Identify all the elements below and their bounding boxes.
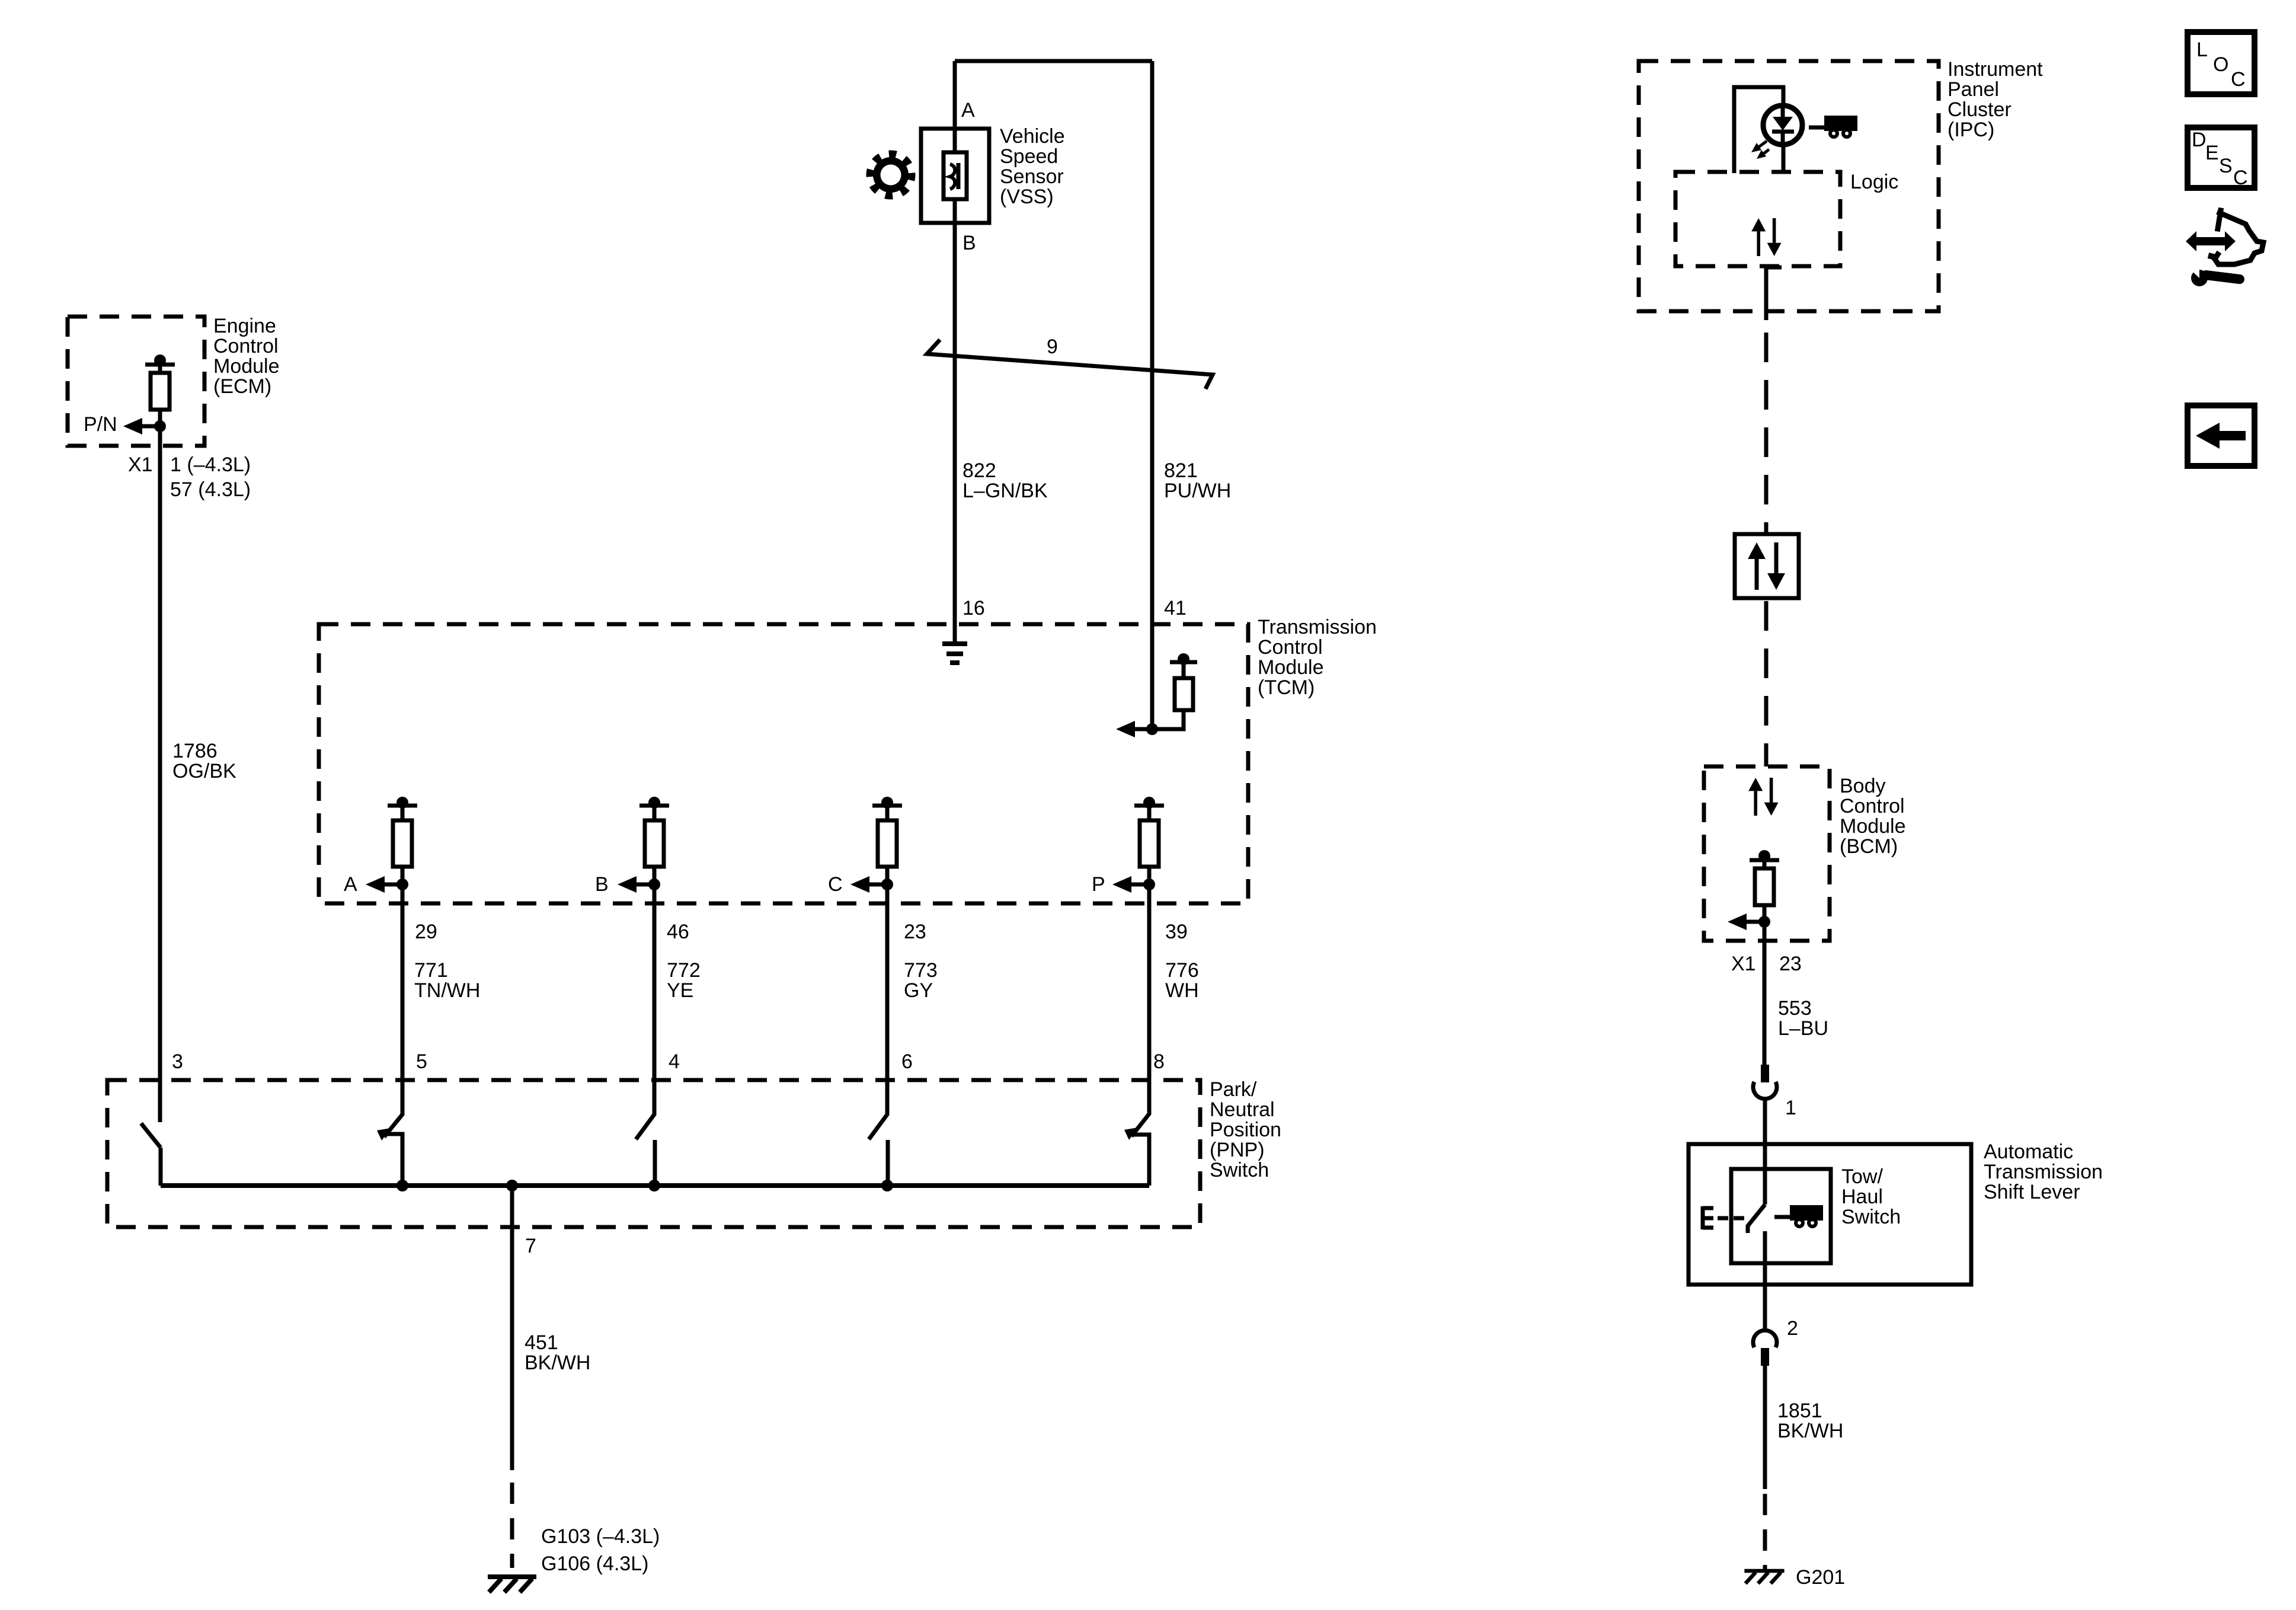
svg-text:57 (4.3L): 57 (4.3L) bbox=[170, 478, 251, 501]
svg-text:Speed: Speed bbox=[1000, 145, 1058, 168]
wire 773 GY bbox=[885, 884, 890, 1114]
svg-text:1786: 1786 bbox=[172, 740, 218, 762]
switch contact 4 bbox=[636, 1097, 655, 1186]
svg-text:B: B bbox=[595, 873, 609, 896]
svg-text:GY: GY bbox=[904, 979, 933, 1002]
svg-text:553: 553 bbox=[1778, 997, 1812, 1020]
wire 1851 BK/WH bbox=[1763, 1366, 1767, 1489]
svg-text:Haul: Haul bbox=[1841, 1186, 1883, 1208]
gear icon bbox=[866, 151, 916, 200]
svg-text:771: 771 bbox=[414, 959, 448, 982]
svg-text:Sensor: Sensor bbox=[1000, 165, 1064, 188]
svg-text:C: C bbox=[828, 873, 843, 896]
mechanical link E bracket bbox=[1703, 1206, 1744, 1229]
resistor TCM output A bbox=[366, 797, 417, 893]
svg-text:4: 4 bbox=[669, 1050, 680, 1073]
svg-text:41: 41 bbox=[1164, 597, 1187, 619]
transmission control module TCM box bbox=[319, 624, 1248, 903]
svg-text:451: 451 bbox=[525, 1331, 558, 1354]
svg-text:A: A bbox=[344, 873, 357, 896]
wire PNP common bus bbox=[161, 1183, 1149, 1188]
svg-text:(ECM): (ECM) bbox=[213, 375, 271, 398]
svg-text:YE: YE bbox=[667, 979, 693, 1002]
svg-text:Tow/: Tow/ bbox=[1841, 1165, 1883, 1188]
svg-text:Shift Lever: Shift Lever bbox=[1984, 1181, 2080, 1203]
svg-text:46: 46 bbox=[667, 921, 689, 943]
svg-text:39: 39 bbox=[1165, 921, 1188, 943]
svg-text:Cluster: Cluster bbox=[1948, 98, 2012, 121]
svg-text:16: 16 bbox=[962, 597, 985, 619]
svg-text:1 (–4.3L): 1 (–4.3L) bbox=[170, 453, 251, 476]
svg-text:Module: Module bbox=[1840, 815, 1906, 838]
svg-text:8: 8 bbox=[1153, 1050, 1165, 1073]
svg-text:821: 821 bbox=[1164, 459, 1198, 482]
logic box bbox=[1675, 172, 1840, 266]
crossing hop 9 bbox=[927, 340, 1213, 389]
svg-text:(BCM): (BCM) bbox=[1840, 835, 1898, 858]
data arrows in logic box bbox=[1751, 218, 1781, 256]
svg-text:G201: G201 bbox=[1796, 1566, 1845, 1589]
svg-text:B: B bbox=[962, 232, 976, 254]
svg-text:Module: Module bbox=[213, 355, 280, 378]
svg-text:G106 (4.3L): G106 (4.3L) bbox=[541, 1552, 648, 1575]
resistor TCM output B bbox=[618, 797, 669, 893]
resistor TCM output P bbox=[1112, 797, 1164, 893]
instrument panel cluster IPC box bbox=[1639, 61, 1939, 311]
wire from logic to BCM bbox=[1766, 267, 1782, 320]
svg-text:776: 776 bbox=[1165, 959, 1199, 982]
svg-text:Panel: Panel bbox=[1948, 78, 1999, 101]
svg-text:(IPC): (IPC) bbox=[1948, 119, 1994, 141]
svg-text:Module: Module bbox=[1258, 656, 1324, 679]
svg-text:9: 9 bbox=[1047, 336, 1058, 358]
wire VSS loop top bbox=[955, 59, 1152, 63]
svg-text:Park/: Park/ bbox=[1210, 1078, 1257, 1101]
wire 1786 OG/BK bbox=[158, 426, 162, 1122]
resistor TCM pin 41 pull-up bbox=[1116, 653, 1197, 737]
ground G201 bbox=[1744, 1571, 1784, 1583]
trailer icon IPC bbox=[1809, 116, 1857, 139]
resistor ECM pull-up bbox=[123, 354, 175, 435]
junction bus pin 7 bbox=[506, 1180, 518, 1191]
svg-text:A: A bbox=[961, 99, 975, 122]
svg-text:P: P bbox=[1092, 873, 1105, 896]
resistor BCM pull-up bbox=[1728, 850, 1779, 930]
LOC icon box bbox=[2188, 32, 2255, 94]
svg-text:7: 7 bbox=[525, 1235, 536, 1257]
automatic transmission shift lever box bbox=[1689, 1144, 1971, 1285]
trailer icon tow/haul bbox=[1774, 1205, 1823, 1228]
svg-text:L–BU: L–BU bbox=[1778, 1017, 1828, 1040]
svg-text:Engine: Engine bbox=[213, 315, 276, 337]
svg-text:O: O bbox=[2213, 53, 2228, 76]
wire 553 L-BU bbox=[1763, 922, 1767, 1065]
svg-text:5: 5 bbox=[416, 1050, 427, 1073]
svg-text:Switch: Switch bbox=[1841, 1206, 1901, 1228]
svg-text:822: 822 bbox=[962, 459, 996, 482]
switch contact tow/haul bbox=[1763, 1231, 1767, 1330]
svg-text:773: 773 bbox=[904, 959, 938, 982]
svg-text:1: 1 bbox=[1785, 1097, 1796, 1119]
svg-text:PU/WH: PU/WH bbox=[1164, 480, 1231, 502]
svg-text:Transmission: Transmission bbox=[1984, 1161, 2103, 1183]
data link connector icon bbox=[2186, 210, 2263, 286]
svg-text:E: E bbox=[2205, 142, 2219, 164]
svg-text:C: C bbox=[2233, 167, 2248, 189]
wire 822 L-GN/BK left side bbox=[953, 61, 957, 644]
svg-text:Control: Control bbox=[213, 335, 279, 357]
svg-text:C: C bbox=[2231, 68, 2246, 91]
svg-text:Transmission: Transmission bbox=[1258, 616, 1377, 638]
svg-text:D: D bbox=[2192, 129, 2207, 151]
LED light arrows bbox=[1751, 141, 1769, 159]
ground G103/G106 bbox=[488, 1577, 536, 1592]
junction bus pin 4 bbox=[648, 1180, 660, 1191]
junction bus pin 5 bbox=[396, 1180, 408, 1191]
svg-text:(VSS): (VSS) bbox=[1000, 186, 1054, 208]
wire 821 PU/WH right side bbox=[1150, 61, 1155, 729]
svg-text:772: 772 bbox=[667, 959, 701, 982]
svg-text:S: S bbox=[2219, 155, 2233, 177]
inline connector 1 bbox=[1753, 1065, 1777, 1099]
back arrow icon box bbox=[2188, 405, 2255, 466]
serial data link box bbox=[1735, 534, 1799, 598]
svg-text:Automatic: Automatic bbox=[1984, 1141, 2073, 1163]
svg-text:TN/WH: TN/WH bbox=[414, 979, 480, 1002]
svg-text:23: 23 bbox=[904, 921, 926, 943]
svg-text:X1: X1 bbox=[1731, 953, 1756, 975]
wire 771 TN/WH bbox=[401, 884, 405, 1114]
svg-text:1851: 1851 bbox=[1777, 1400, 1822, 1422]
svg-text:29: 29 bbox=[415, 921, 437, 943]
svg-text:L: L bbox=[2196, 39, 2208, 61]
switch contact 6 bbox=[869, 1097, 888, 1186]
svg-text:Control: Control bbox=[1840, 795, 1905, 817]
switch blade tow/haul bbox=[1748, 1205, 1765, 1233]
svg-text:(TCM): (TCM) bbox=[1258, 676, 1315, 699]
indicator lamp loop bbox=[1734, 87, 1783, 173]
junction bus pin 6 bbox=[881, 1180, 893, 1191]
wire link to BCM bbox=[1764, 601, 1769, 766]
svg-text:P/N: P/N bbox=[84, 413, 117, 436]
svg-text:Instrument: Instrument bbox=[1948, 58, 2043, 81]
svg-text:G103 (–4.3L): G103 (–4.3L) bbox=[541, 1525, 660, 1548]
svg-text:Logic: Logic bbox=[1850, 171, 1898, 193]
DESC icon box bbox=[2188, 127, 2255, 189]
svg-text:Position: Position bbox=[1210, 1119, 1281, 1141]
svg-text:X1: X1 bbox=[128, 453, 153, 476]
LED tow/haul indicator bbox=[1763, 105, 1802, 145]
svg-text:L–GN/BK: L–GN/BK bbox=[962, 480, 1048, 502]
switch contact 3 bbox=[141, 1123, 161, 1186]
ground earth at pin 16 bbox=[942, 644, 967, 663]
svg-text:OG/BK: OG/BK bbox=[172, 760, 236, 782]
svg-text:WH: WH bbox=[1165, 979, 1199, 1002]
body control module BCM box bbox=[1704, 766, 1830, 941]
svg-text:(PNP): (PNP) bbox=[1210, 1139, 1265, 1161]
switch contact 5 bbox=[377, 1097, 402, 1186]
svg-text:Vehicle: Vehicle bbox=[1000, 125, 1065, 148]
svg-text:Switch: Switch bbox=[1210, 1159, 1269, 1181]
svg-text:Control: Control bbox=[1258, 636, 1323, 659]
data arrows in BCM bbox=[1748, 778, 1778, 816]
wire connector1 to shift lever bbox=[1763, 1100, 1767, 1205]
inline connector 2 bbox=[1753, 1330, 1777, 1366]
resistor TCM output C bbox=[850, 797, 902, 893]
switch contact 8 bbox=[1124, 1096, 1149, 1186]
wire 451 BK/WH bbox=[510, 1186, 514, 1470]
svg-text:6: 6 bbox=[901, 1050, 913, 1073]
svg-text:BK/WH: BK/WH bbox=[1777, 1420, 1843, 1442]
VSS sensor element bbox=[944, 152, 967, 199]
wire 776 WH bbox=[1147, 884, 1152, 1114]
tow/haul switch box bbox=[1731, 1169, 1831, 1263]
vehicle speed sensor VSS box bbox=[921, 129, 989, 223]
data arrows in link box bbox=[1748, 542, 1785, 590]
svg-text:2: 2 bbox=[1787, 1317, 1798, 1340]
park neutral position PNP switch box bbox=[107, 1080, 1200, 1227]
engine control module ECM box bbox=[68, 317, 204, 446]
wire 772 YE bbox=[653, 884, 657, 1114]
svg-text:Body: Body bbox=[1840, 775, 1886, 797]
svg-text:BK/WH: BK/WH bbox=[525, 1352, 590, 1374]
svg-text:23: 23 bbox=[1779, 953, 1802, 975]
svg-text:Neutral: Neutral bbox=[1210, 1098, 1275, 1121]
svg-text:3: 3 bbox=[172, 1050, 183, 1073]
